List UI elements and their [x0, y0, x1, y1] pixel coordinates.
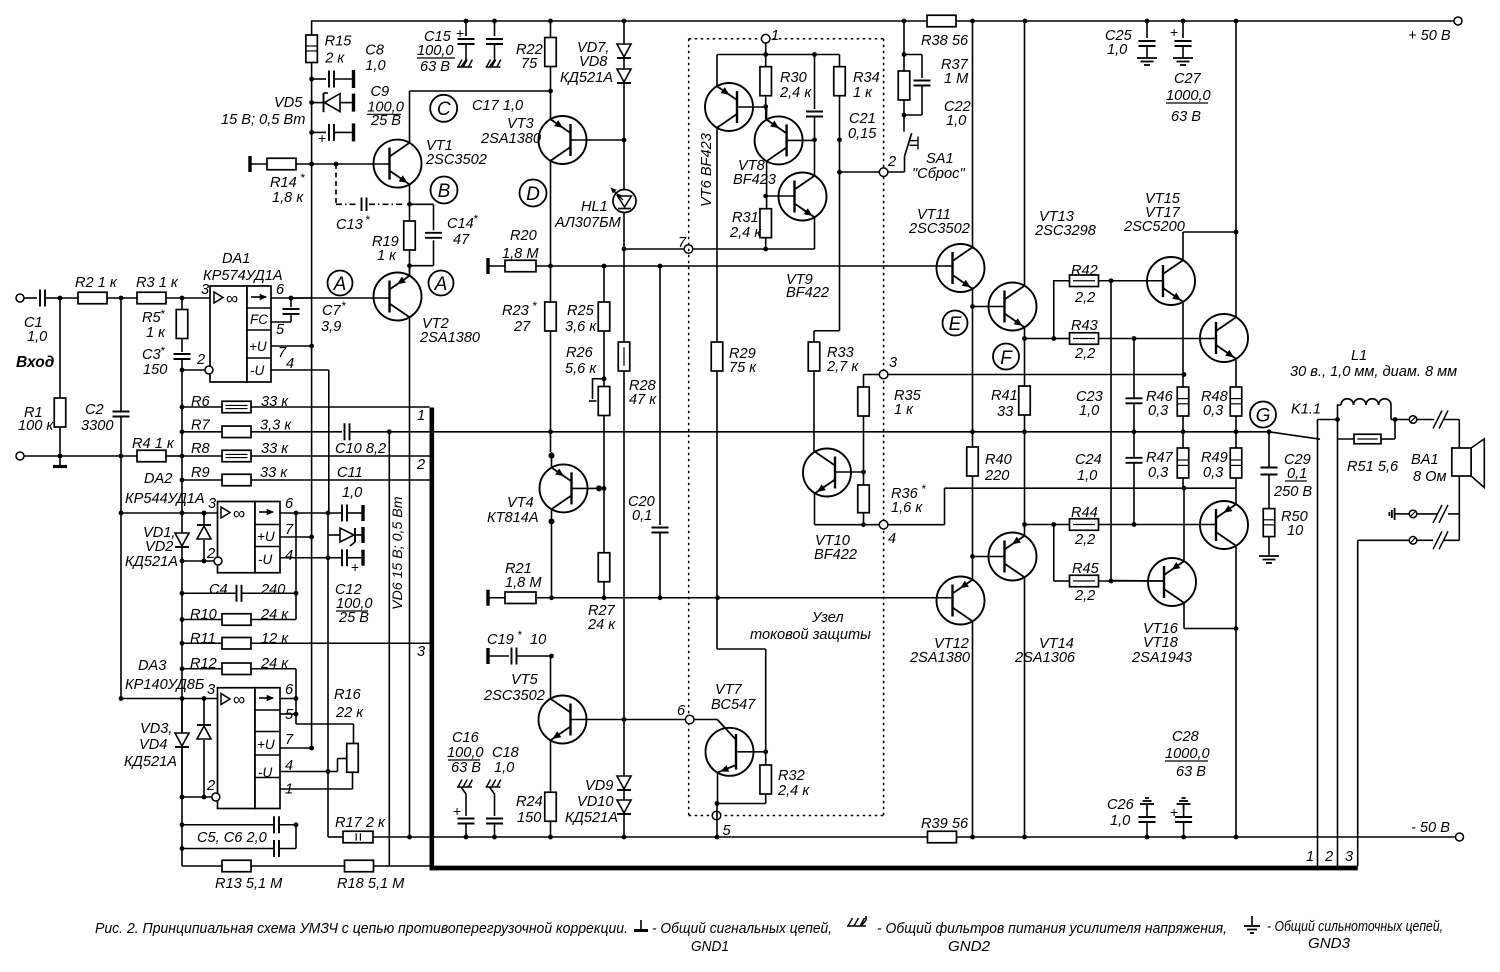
svg-text:3: 3: [417, 644, 425, 660]
label R50 10: [1281, 509, 1308, 539]
node: [1022, 522, 1027, 527]
node: [970, 554, 975, 559]
svg-text:2,2: 2,2: [1074, 532, 1095, 548]
svg-text:2: 2: [196, 352, 205, 368]
node: [334, 162, 339, 167]
resistor R35: [858, 375, 870, 473]
node: [180, 559, 185, 564]
pin 5 label: [276, 322, 285, 338]
svg-text:0,3: 0,3: [1148, 403, 1168, 419]
svg-text:∞: ∞: [233, 690, 245, 709]
resistor R24: [545, 792, 557, 821]
label 2 conn: [887, 154, 896, 170]
svg-text:DA2: DA2: [144, 471, 172, 487]
connector o1: [1409, 416, 1417, 424]
wire VT7 base: [694, 720, 736, 740]
zener VD5: [312, 93, 354, 112]
svg-text:2,2: 2,2: [1074, 290, 1095, 306]
pin 4 wire DA3: [280, 759, 347, 772]
resistor R20: [488, 258, 945, 274]
label C15: [424, 25, 464, 45]
node: [763, 104, 768, 109]
wire x122 column: [120, 456, 122, 699]
svg-text:1 к: 1 к: [377, 248, 397, 264]
label 1 tap: [417, 408, 425, 424]
svg-text:GND1: GND1: [691, 938, 729, 955]
svg-text:R42: R42: [1071, 263, 1098, 279]
wire: [311, 63, 313, 749]
resistor R13: [182, 849, 345, 872]
svg-text:2: 2: [206, 546, 215, 562]
wire R33 jog: [814, 172, 840, 342]
svg-text:1,6 к: 1,6 к: [891, 500, 923, 516]
svg-text:C18: C18: [492, 745, 520, 761]
op-amp DA2 box: [218, 502, 281, 573]
svg-text:С: С: [437, 99, 451, 120]
capacitor C12: [342, 549, 363, 575]
terminal +50: [1454, 17, 1462, 25]
svg-text:*: *: [160, 344, 165, 358]
svg-text:24 к: 24 к: [587, 617, 616, 633]
wire VT6 emitter: [716, 55, 718, 87]
resistor R39: [928, 831, 957, 843]
svg-text:R30: R30: [780, 70, 807, 86]
svg-text:6: 6: [285, 682, 294, 698]
label VT9 BF422: [786, 272, 829, 301]
op-amp DA3 symbols: [221, 690, 275, 780]
speaker BA1: [1452, 439, 1485, 488]
wire: [1099, 524, 1217, 526]
resistor R36: [858, 472, 870, 525]
node: [180, 511, 185, 516]
diode VD1: [175, 513, 189, 561]
node bus-972: [970, 429, 975, 434]
svg-text:2,4 к: 2,4 к: [729, 225, 762, 241]
capacitor C18: [486, 780, 504, 838]
svg-text:C7: C7: [322, 303, 342, 319]
label R27 24 к: [587, 603, 616, 633]
svg-text:+ 50 В: + 50 В: [1408, 28, 1451, 44]
svg-text:2SC3298: 2SC3298: [1034, 223, 1097, 239]
node: [326, 511, 331, 516]
transistor VT1: [374, 140, 422, 188]
label C24 1,0: [1075, 452, 1102, 484]
wire: [603, 416, 605, 553]
wire HL1 cathode: [623, 213, 625, 343]
pin 6 wire DA2: [280, 512, 342, 514]
wire x1236 down: [1235, 629, 1237, 838]
label R2 1 к: [75, 275, 118, 291]
label R29 75 к: [729, 346, 757, 376]
svg-text:R6: R6: [191, 394, 211, 410]
node: [309, 746, 314, 751]
svg-text:R49: R49: [1201, 450, 1228, 466]
node: [1181, 429, 1186, 434]
svg-text:C26: C26: [1107, 797, 1135, 813]
pin 7 wire +U: [271, 345, 312, 347]
svg-text:2,4 к: 2,4 к: [779, 85, 812, 101]
svg-text:R25: R25: [567, 303, 595, 319]
label K1.1: [1291, 402, 1321, 418]
wire VT5 emitter: [550, 740, 552, 792]
label C2 3300: [81, 402, 113, 434]
pin 4 label: [286, 356, 294, 372]
label R1 100 к: [18, 405, 54, 434]
node: [1181, 835, 1186, 840]
label R5*: [142, 307, 165, 326]
label L1: [1351, 348, 1367, 364]
label R36* 1,6 к: [891, 482, 926, 516]
svg-text:4: 4: [888, 531, 896, 547]
pin 2 wire: [182, 366, 213, 374]
label 3 tap: [417, 644, 425, 660]
node: [548, 89, 553, 94]
label terminal 1: [1306, 849, 1314, 865]
label R43 2,2: [1071, 318, 1098, 362]
node: [464, 19, 469, 24]
label C26 1,0: [1107, 797, 1135, 829]
node: [622, 138, 627, 143]
diode VD7: [617, 21, 631, 69]
wire: [717, 794, 766, 804]
resistor R7: [182, 426, 251, 438]
svg-text:АЛ307БМ: АЛ307БМ: [554, 215, 622, 231]
capacitor C2: [113, 298, 130, 456]
svg-text:HL1: HL1: [581, 199, 608, 215]
pin 2 wire DA3: [182, 793, 220, 801]
node in3: [180, 296, 185, 301]
svg-text:7: 7: [285, 522, 294, 538]
label C9 100,0/25В: [367, 84, 404, 129]
label C23 1,0: [1076, 389, 1103, 419]
label R13 5,1 М: [215, 876, 283, 892]
svg-text:150: 150: [143, 362, 167, 378]
label R17 2 к: [335, 815, 386, 831]
svg-text:BA1: BA1: [1411, 452, 1439, 468]
svg-text:0,1: 0,1: [1287, 466, 1307, 482]
label VD7 VD8 КД521А: [560, 40, 613, 86]
wire VT4 emitter: [549, 452, 555, 468]
label terminal 3: [1345, 849, 1353, 865]
wire VT7 emitter: [717, 773, 719, 804]
svg-text:1,0: 1,0: [1077, 468, 1097, 484]
resistor R2: [78, 292, 107, 304]
label 6 conn: [677, 703, 686, 719]
wire VT6 collector: [716, 128, 718, 342]
wire VT8 collector: [766, 161, 768, 209]
node: [812, 137, 817, 142]
pin 3 label: [201, 282, 209, 298]
node: [1234, 19, 1239, 24]
op-amp DA1 symbols: [214, 289, 268, 378]
transistor VT6: [705, 83, 753, 131]
node: [119, 454, 124, 459]
connector o2: [1409, 510, 1417, 518]
wire VT16 collector: [1184, 603, 1236, 629]
svg-text:C19: C19: [487, 632, 514, 648]
wire VT3 base: [571, 139, 625, 141]
label C25 1,0: [1105, 28, 1133, 58]
resistor R44: [1025, 519, 1099, 531]
svg-text:2,2: 2,2: [1074, 346, 1095, 362]
capacitor C9: [312, 123, 354, 146]
resistor R50: [1263, 509, 1275, 537]
svg-text:+: +: [453, 803, 461, 819]
svg-text:3: 3: [1345, 849, 1353, 865]
wire VT5 base: [571, 719, 686, 721]
svg-text:K1.1: K1.1: [1291, 402, 1321, 418]
node: [715, 595, 720, 600]
label R24 150: [516, 794, 543, 826]
terminal -50: [1456, 833, 1464, 841]
wire VT15 collector: [1183, 232, 1236, 260]
label R4 1 к: [132, 436, 175, 452]
svg-text:6: 6: [285, 496, 294, 512]
wire VT9 base: [766, 195, 795, 197]
resistor R40: [967, 447, 979, 476]
wire: [1099, 338, 1218, 340]
label +50 В: [1408, 28, 1451, 44]
wire VT4 collector: [549, 509, 555, 598]
label 3 conn: [889, 355, 897, 371]
svg-text:1000,0: 1000,0: [1166, 88, 1211, 104]
wire VT12 base stub: [945, 597, 953, 599]
label R9 33 к: [191, 465, 288, 481]
svg-text:2SA1380: 2SA1380: [480, 131, 541, 147]
resistor R11: [182, 638, 430, 650]
wire column x182: [181, 370, 183, 513]
diode VD8: [617, 69, 631, 140]
svg-text:VD5: VD5: [274, 95, 303, 111]
pin 1 wire DA3: [280, 772, 353, 789]
node A left: [328, 271, 353, 296]
svg-text:*: *: [473, 212, 478, 226]
svg-text:C24: C24: [1075, 452, 1102, 468]
svg-text:VT3: VT3: [507, 116, 534, 132]
pin 6 wire DA3: [280, 698, 296, 700]
resistor R10: [182, 513, 296, 625]
wire VT16 base: [1111, 580, 1164, 583]
cable crossing 3: [1433, 531, 1448, 549]
node: [294, 591, 299, 596]
node: [180, 641, 185, 646]
pin 3 label DA2: [208, 496, 216, 512]
resistor R14: [250, 156, 390, 172]
resistor R37: [898, 21, 910, 115]
svg-text:Е: Е: [949, 314, 962, 335]
svg-text:4: 4: [285, 758, 293, 774]
node: [622, 835, 627, 840]
svg-text:10: 10: [530, 632, 546, 648]
svg-text:0,3: 0,3: [1203, 403, 1223, 419]
node: [715, 835, 720, 840]
label R19 1 к: [372, 234, 399, 264]
svg-text:R10: R10: [190, 607, 217, 623]
wire VT17 emitter: [1235, 359, 1237, 387]
wire node3 row: [864, 374, 1185, 376]
svg-text:2: 2: [1324, 849, 1333, 865]
cable crossing 2: [1433, 505, 1448, 523]
connector ring 1: [761, 34, 770, 43]
svg-text:DA1: DA1: [222, 251, 250, 267]
label VD1 VD2 КД521А: [125, 525, 178, 570]
node: [1335, 417, 1340, 422]
wire VT16 emitter: [1183, 488, 1185, 561]
label DA2: [144, 471, 172, 487]
label R11 12 к: [190, 631, 289, 647]
svg-text:+U: +U: [257, 737, 275, 752]
svg-text:+U: +U: [249, 339, 267, 354]
wire: [717, 649, 766, 765]
svg-text:1: 1: [771, 28, 779, 44]
svg-text:0,15: 0,15: [848, 126, 877, 142]
connector ring 4: [879, 520, 888, 529]
node: [326, 555, 331, 560]
resistor R12: [182, 663, 354, 744]
wire pin3 row DA2: [121, 512, 218, 514]
svg-text:3300: 3300: [81, 418, 113, 434]
node: [902, 52, 907, 57]
wire: [1448, 476, 1459, 540]
svg-text:BF422: BF422: [814, 547, 857, 563]
label C28 1000,0/63В: [1165, 729, 1210, 780]
wire: [1184, 478, 1236, 488]
svg-text:C16: C16: [452, 730, 480, 746]
label C20 0,1: [628, 494, 655, 524]
svg-text:R43: R43: [1071, 318, 1098, 334]
svg-text:250 В: 250 В: [1273, 484, 1312, 500]
label R7 3,3 к: [191, 418, 292, 434]
svg-text:R3 1 к: R3 1 к: [136, 275, 179, 291]
wire -U column: [327, 513, 329, 772]
transistor VT8: [755, 116, 803, 164]
svg-text:63 В: 63 В: [1171, 109, 1201, 125]
svg-text:4: 4: [285, 548, 293, 564]
node bus-1025: [1022, 429, 1027, 434]
node: [464, 835, 469, 840]
node: [1022, 835, 1027, 840]
svg-text:7: 7: [678, 235, 687, 251]
pin 7 label DA3: [285, 732, 294, 748]
svg-text:*: *: [341, 299, 346, 313]
resistor R33: [808, 342, 820, 371]
label VD5: [274, 95, 303, 111]
capacitor C14: [410, 204, 443, 265]
label VT7 ВС547: [711, 682, 756, 713]
svg-text:3: 3: [207, 682, 215, 698]
svg-text:5,6 к: 5,6 к: [565, 361, 597, 377]
svg-text:VT18: VT18: [1143, 635, 1179, 651]
pin 6 label DA2: [285, 496, 294, 512]
svg-text:2SA1380: 2SA1380: [909, 650, 970, 666]
node: [309, 77, 314, 82]
svg-text:3: 3: [208, 496, 216, 512]
label R3 1 к: [136, 275, 179, 291]
label VT5 2SC3502: [483, 672, 545, 704]
svg-text:*: *: [300, 171, 305, 185]
svg-text:*: *: [160, 307, 165, 321]
svg-text:33 к: 33 к: [261, 441, 289, 457]
svg-text:R31: R31: [732, 210, 759, 226]
pin 2 label DA2: [206, 546, 215, 562]
transistor VT15: [1147, 257, 1195, 305]
svg-text:R14: R14: [270, 175, 297, 191]
capacitor C3: [174, 354, 191, 370]
node: [812, 52, 817, 57]
svg-text:R34: R34: [853, 70, 880, 86]
resistor R38 box: [927, 15, 956, 27]
node G: [1250, 402, 1276, 428]
node: [294, 822, 299, 827]
svg-text:R11: R11: [190, 631, 216, 647]
node in2: [119, 296, 124, 301]
svg-text:2SA1943: 2SA1943: [1131, 650, 1192, 666]
resistor R25: [598, 266, 610, 387]
node: [1234, 230, 1239, 235]
svg-text:63 В: 63 В: [451, 760, 481, 776]
svg-text:VD10: VD10: [577, 794, 614, 810]
pin 7 wire DA2: [280, 536, 312, 538]
label R33 2,7 к: [826, 345, 859, 375]
node: [622, 19, 627, 24]
wire: [1182, 478, 1184, 488]
svg-text:D: D: [526, 184, 540, 205]
resistor R9: [182, 474, 430, 486]
resistor R21: [488, 590, 945, 606]
wire VT8 emitter: [766, 107, 768, 120]
node: [180, 405, 185, 410]
pin 6 label DA3: [285, 682, 294, 698]
node: [970, 304, 975, 309]
wire VT3 emitter: [550, 91, 552, 119]
label 1 к: [146, 325, 166, 341]
resistor R15: [306, 35, 318, 63]
svg-text:А: А: [434, 274, 448, 295]
label DA3: [138, 658, 166, 674]
wire: [1025, 338, 1054, 340]
capacitor C13 dashed: [336, 164, 405, 211]
label HL1 АЛ307БМ: [554, 199, 622, 231]
svg-text:1 к: 1 к: [853, 85, 873, 101]
connector ring 3: [879, 370, 888, 379]
label BA1 8 Ом: [1411, 452, 1447, 485]
node: [1234, 626, 1239, 631]
caption gnd3 text: [1267, 918, 1443, 952]
resistor R46: [1177, 387, 1189, 416]
label R16 22 к: [334, 687, 364, 721]
node: [861, 522, 866, 527]
wire x1236 top: [1235, 21, 1237, 317]
svg-text:1,0: 1,0: [1079, 403, 1099, 419]
svg-text:А: А: [333, 274, 347, 295]
svg-text:КД521А: КД521А: [560, 70, 613, 86]
svg-text:33: 33: [997, 404, 1013, 420]
label R45 2,2: [1072, 561, 1100, 604]
svg-text:F: F: [1000, 348, 1013, 369]
op-amp DA2 symbols: [221, 504, 275, 567]
label C27 1000,0/63В: [1166, 71, 1211, 125]
node: [658, 595, 663, 600]
label C14 47: [447, 212, 478, 248]
label VT13 2SC3298: [1034, 209, 1097, 239]
label 15В 0,5Вт: [221, 112, 305, 128]
pin 6 wire: [271, 297, 311, 299]
svg-text:C10 8,2: C10 8,2: [335, 441, 386, 457]
svg-text:1,8 М: 1,8 М: [505, 575, 542, 591]
wire x1357 down: [1357, 540, 1359, 866]
label C18 1,0: [492, 745, 520, 776]
label C29 0,1/250В: [1273, 452, 1312, 500]
